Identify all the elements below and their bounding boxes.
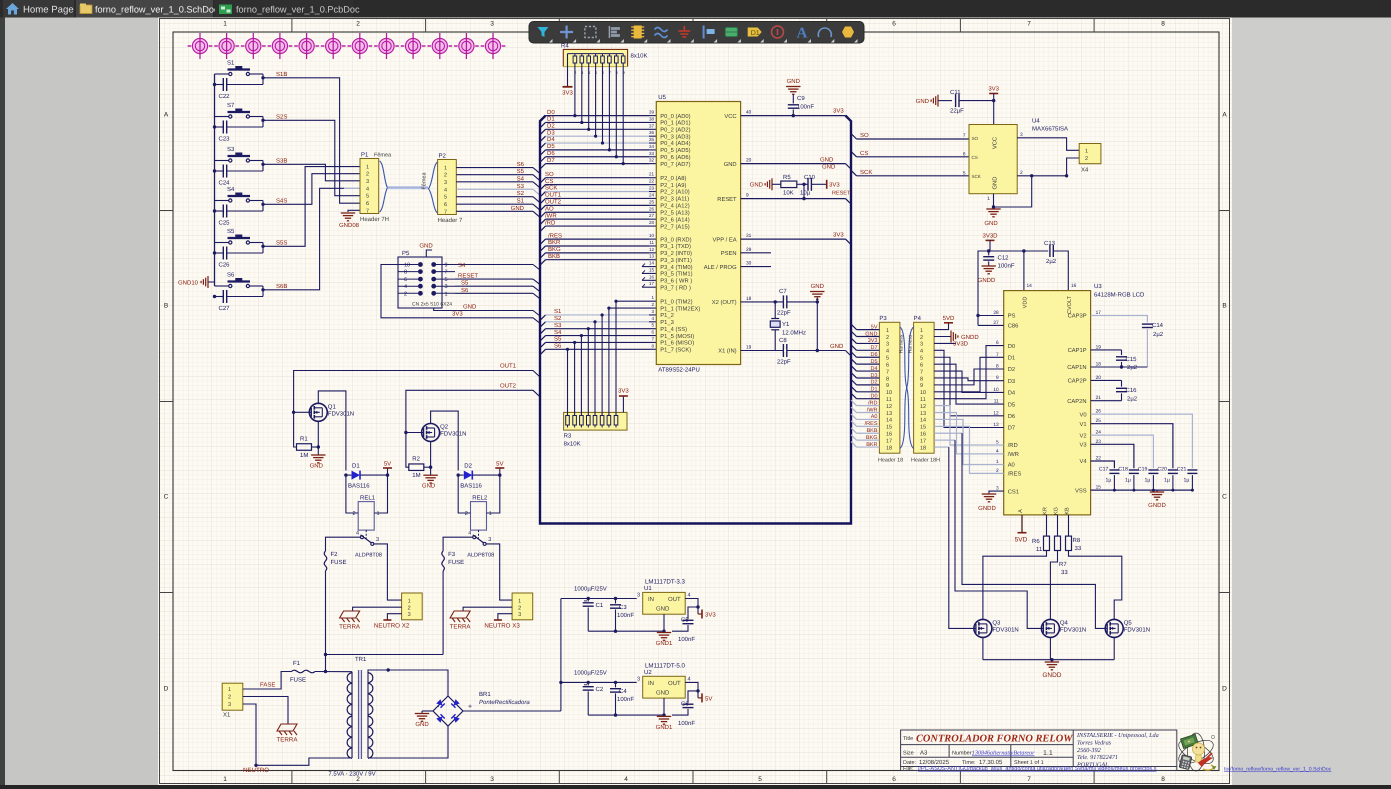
capacitor C15 2u2 (1091, 349, 1122, 351)
svg-text:C2: C2 (596, 686, 604, 693)
capacitor C12 100nF (988, 251, 990, 255)
svg-text:D1: D1 (547, 116, 555, 123)
wire U1 GND pin (663, 614, 665, 631)
capacitor C18 1u (1129, 469, 1139, 471)
svg-text:26: 26 (649, 206, 655, 211)
svg-text:P1_3: P1_3 (660, 319, 674, 326)
wire P4 D5 to LCD (934, 364, 1004, 404)
svg-text:13: 13 (886, 411, 892, 417)
wire S3B to P1 pin3 (263, 164, 360, 181)
pin stub PSEN (741, 252, 771, 254)
svg-text:6: 6 (366, 201, 369, 207)
svg-text:U4: U4 (1032, 118, 1040, 125)
svg-text:C18: C18 (1118, 467, 1128, 473)
fiducial mark FID8 (374, 33, 399, 59)
fuse F1 (292, 670, 316, 673)
svg-text:1: 1 (518, 598, 521, 604)
svg-text:S1B: S1B (276, 71, 287, 78)
svg-text:8x10K: 8x10K (631, 53, 648, 60)
svg-text:BKG: BKG (866, 435, 878, 441)
wire mains rail riser (325, 655, 327, 672)
wire RESET pin 9 (741, 198, 846, 200)
wire BR1 minus to GND (422, 710, 433, 712)
wire net SCK to MAX6675 (851, 170, 857, 176)
wire net OUT1 (540, 198, 546, 204)
svg-text:R8: R8 (1073, 537, 1081, 544)
svg-text:11: 11 (649, 240, 654, 245)
svg-text:1M: 1M (300, 452, 308, 459)
transistor Q1 FDV301N (309, 403, 327, 421)
wire R4 output 7 to D6 (615, 63, 617, 157)
svg-text:P0_5 (AD5): P0_5 (AD5) (660, 147, 690, 154)
svg-text:File:: File: (903, 766, 914, 772)
svg-text:+: + (468, 704, 472, 711)
svg-text:ALE / PROG: ALE / PROG (704, 264, 737, 271)
svg-text:D5: D5 (1008, 402, 1015, 408)
svg-text:17.30.05: 17.30.05 (979, 759, 1003, 766)
svg-text:P2_7 (A15): P2_7 (A15) (660, 223, 689, 230)
svg-text:Harness: Harness (908, 334, 914, 353)
capacitor C26 (227, 252, 263, 254)
svg-text:10: 10 (404, 263, 410, 269)
svg-text:/RES: /RES (548, 232, 562, 239)
svg-text:D2: D2 (464, 463, 472, 470)
capacitor C1 1000uF (587, 599, 589, 602)
svg-text:C20: C20 (1157, 467, 1167, 473)
wire F3 to mains rail (442, 571, 444, 655)
wire CAP2N (1091, 400, 1122, 402)
svg-text:7: 7 (445, 270, 448, 276)
svg-text:OUT2: OUT2 (545, 199, 562, 206)
wire net 3V3 to P3 (851, 338, 857, 344)
svg-text:SCK: SCK (972, 174, 981, 179)
svg-text:2µ2: 2µ2 (1046, 258, 1057, 265)
connector X3 (512, 593, 533, 620)
svg-text:AO: AO (545, 205, 554, 212)
wire P4 D6 to LCD (934, 357, 1004, 416)
svg-text:SO: SO (545, 171, 554, 178)
wire net D6 (540, 157, 546, 163)
svg-text:V0: V0 (1080, 411, 1087, 418)
svg-text:NEUTRO: NEUTRO (243, 767, 269, 774)
resistor R1 1M (294, 412, 297, 447)
wire P4 D1 to LCD (934, 357, 1004, 391)
svg-text:Title: Title (903, 736, 913, 742)
net NEUTRO wire (243, 704, 352, 765)
svg-text:CONTROLADOR FORNO RELOW: CONTROLADOR FORNO RELOW (916, 734, 1073, 745)
svg-text:37: 37 (649, 123, 655, 128)
svg-text:5V: 5V (496, 461, 503, 468)
svg-text:Header 18: Header 18 (878, 458, 903, 464)
svg-text:TERRA: TERRA (450, 624, 472, 631)
svg-text:7: 7 (1027, 776, 1031, 783)
svg-text:2: 2 (408, 605, 411, 611)
svg-text:2560-392: 2560-392 (1077, 747, 1101, 754)
svg-text:C: C (164, 494, 169, 501)
bus boundary wire loop (540, 116, 851, 524)
svg-text:P1: P1 (361, 152, 369, 159)
svg-text:S7: S7 (227, 102, 235, 109)
svg-text:P0_2 (AD2): P0_2 (AD2) (660, 127, 690, 134)
svg-text:C6: C6 (681, 700, 689, 707)
wire P4 D2 to LCD (934, 369, 1004, 385)
svg-text:10µ: 10µ (800, 190, 811, 197)
capacitor C11 22uF (937, 95, 939, 107)
svg-text:7: 7 (963, 132, 966, 138)
wire R KR to Q3 drain (983, 551, 1047, 620)
svg-text:FASE: FASE (260, 682, 275, 689)
capacitor C3 100nF (615, 599, 617, 604)
svg-text:12: 12 (649, 247, 655, 252)
wire PS pin (978, 315, 1004, 317)
svg-text:40: 40 (746, 110, 752, 116)
svg-text:GND: GND (463, 303, 477, 310)
ground GNDD at transistors (1051, 660, 1053, 662)
wire P4 D3 to LCD (934, 378, 1004, 381)
svg-text:18: 18 (886, 445, 892, 451)
wire P1_1 from R3 (609, 307, 656, 309)
svg-text:D1: D1 (352, 463, 360, 470)
svg-text:3: 3 (637, 676, 640, 682)
home page tab (3, 0, 74, 18)
svg-text:Header 7H: Header 7H (360, 216, 389, 223)
svg-text:P3_2 (INT0): P3_2 (INT0) (660, 250, 692, 257)
fiducial mark FID1 (188, 33, 213, 59)
pin stub P3_4 (642, 266, 656, 268)
svg-text:10: 10 (920, 390, 926, 396)
svg-text:9: 9 (746, 193, 749, 199)
svg-text:5: 5 (963, 170, 966, 176)
wire V3 to C18 (1091, 444, 1134, 468)
svg-text:8: 8 (404, 270, 407, 276)
ground GND at Q1 (311, 454, 325, 456)
capacitor C7 22pF (782, 295, 784, 308)
svg-text:forno_reflow_ver_1_0.SchDoc: forno_reflow_ver_1_0.SchDoc (95, 5, 219, 15)
wire sources to GNDD (982, 637, 984, 659)
svg-text:8: 8 (886, 376, 889, 382)
svg-text:C9: C9 (797, 95, 805, 102)
svg-text:P0_3 (AD3): P0_3 (AD3) (660, 133, 690, 140)
thermocouple interface U4 MAX6675ISA (969, 125, 1017, 194)
svg-text:C15: C15 (1126, 356, 1138, 363)
schematic sheet paper (158, 18, 1232, 786)
svg-text:/WR: /WR (1008, 451, 1019, 458)
wire Q2 drain to relay (431, 411, 459, 470)
svg-text:17: 17 (649, 281, 655, 286)
svg-text:S3: S3 (517, 183, 525, 190)
svg-text:4: 4 (404, 284, 407, 290)
svg-text:P3: P3 (879, 315, 887, 322)
svg-text:33: 33 (649, 151, 655, 156)
svg-text:P1_2: P1_2 (660, 312, 674, 319)
svg-text:P2_4 (A12): P2_4 (A12) (660, 203, 689, 210)
svg-text:KB: KB (1065, 507, 1071, 515)
svg-text:R5: R5 (783, 174, 791, 181)
svg-text:13: 13 (649, 254, 655, 259)
svg-text:5: 5 (366, 194, 369, 200)
wire net D4 (540, 143, 546, 149)
resistor network R3 8x10K (564, 412, 627, 430)
wire regulator U1 input rail (561, 598, 637, 600)
svg-text:CS: CS (972, 155, 978, 160)
relay REL1 contact (365, 530, 367, 540)
svg-text:2: 2 (228, 695, 231, 701)
svg-text:3: 3 (518, 612, 521, 618)
svg-text:R6: R6 (1032, 538, 1040, 545)
wire net AO (540, 212, 546, 218)
svg-text:FDV301N: FDV301N (440, 431, 466, 438)
wire net S2 (540, 322, 546, 328)
wire R3 pin 3 (580, 336, 582, 416)
svg-text:A0: A0 (871, 414, 878, 420)
svg-text:P2_1 (A9): P2_1 (A9) (660, 182, 686, 189)
svg-text:1.1: 1.1 (1043, 750, 1053, 757)
svg-text:5VD: 5VD (943, 315, 955, 322)
svg-text:D6: D6 (1008, 413, 1015, 420)
svg-text:12.0MHz: 12.0MHz (782, 330, 806, 337)
svg-text:S3: S3 (554, 322, 562, 329)
svg-text:1: 1 (445, 291, 448, 297)
svg-text:16: 16 (1071, 283, 1077, 289)
wire X2 pin 18 (741, 301, 818, 303)
svg-text:1: 1 (987, 196, 990, 202)
svg-text:7: 7 (444, 209, 447, 215)
svg-text:100nF: 100nF (617, 612, 634, 619)
wire net D3 (540, 136, 546, 142)
wire net D7 to P3 (851, 345, 857, 351)
svg-text:IN: IN (648, 680, 654, 687)
svg-text:12/08/2025: 12/08/2025 (919, 759, 950, 766)
capacitor C8 22pF (782, 344, 784, 357)
svg-text:GND: GND (656, 606, 670, 613)
svg-text:F1: F1 (293, 660, 301, 667)
svg-text:GND: GND (415, 721, 429, 728)
wire net S1 (540, 315, 546, 321)
wire regulator U2 input rail (561, 681, 637, 683)
wire REL2 pin4 to fuse F3 (443, 537, 473, 551)
svg-text:/RD: /RD (868, 400, 878, 406)
capacitor C24 (227, 170, 263, 172)
wire net /RD (540, 226, 546, 232)
svg-text:P5: P5 (402, 250, 410, 257)
wire X3 pin2 to TERRA (463, 607, 512, 611)
wire VSS rail (1091, 489, 1193, 491)
svg-text:22pF: 22pF (777, 359, 791, 366)
svg-text:2: 2 (444, 173, 447, 179)
wire reset junction (803, 184, 805, 198)
svg-text:GND: GND (984, 220, 998, 227)
svg-text:D7: D7 (1008, 426, 1015, 432)
svg-text:GND: GND (822, 163, 836, 170)
svg-text:S4: S4 (458, 262, 466, 269)
svg-text:GND: GND (811, 283, 825, 290)
svg-text:3: 3 (886, 342, 889, 348)
svg-text:C1: C1 (596, 602, 604, 609)
connector P5 (398, 257, 442, 308)
svg-text:100nF: 100nF (617, 696, 634, 703)
svg-text:7: 7 (920, 369, 923, 375)
svg-text:12: 12 (920, 404, 926, 410)
svg-text:GND: GND (830, 343, 844, 350)
wire net /WR to P3 (851, 407, 857, 413)
svg-text:BAS116: BAS116 (348, 483, 370, 490)
wire net BKR (540, 246, 546, 252)
svg-text:GND: GND (916, 98, 930, 105)
svg-text:D2: D2 (547, 123, 555, 130)
svg-text:P2_2 (A10): P2_2 (A10) (660, 189, 689, 196)
toolbar no-erc icon (772, 26, 784, 38)
svg-text:CAP2N: CAP2N (1067, 398, 1086, 405)
svg-text:TERRA: TERRA (277, 737, 299, 744)
wire S5 from P5 to bus (455, 285, 533, 287)
svg-text:C5: C5 (681, 617, 689, 624)
svg-text:R2: R2 (412, 456, 420, 463)
svg-text:1µ: 1µ (1184, 478, 1190, 484)
power 3V3 at R3 (619, 395, 628, 397)
svg-text:Tele. 917822471: Tele. 917822471 (1077, 754, 1118, 761)
wire net SO (540, 178, 546, 184)
svg-text:KG: KG (1054, 507, 1060, 515)
wire net /RES to P3 (851, 421, 857, 427)
svg-text:A: A (1222, 112, 1227, 119)
svg-text:VDD: VDD (1023, 297, 1029, 309)
svg-text:1: 1 (886, 328, 889, 334)
svg-text:GNDD: GNDD (961, 334, 979, 341)
svg-text:1: 1 (489, 511, 492, 517)
ground GNDD below C12 (982, 265, 996, 267)
svg-text:14: 14 (920, 418, 926, 424)
svg-text:D1: D1 (870, 387, 877, 393)
svg-text:9: 9 (920, 383, 923, 389)
svg-text:Harness: Harness (899, 334, 905, 353)
wire R KG to Q4 drain (1050, 551, 1057, 620)
fiducial mark FID6 (321, 33, 346, 59)
status bar (0, 785, 1391, 789)
power 3V3D rail (986, 239, 995, 241)
svg-text:4: 4 (886, 349, 889, 355)
wire secondary top to bridge (368, 670, 448, 697)
wire R8 to Q5 drain (1069, 551, 1122, 620)
svg-text:C24: C24 (219, 180, 231, 187)
svg-text:5V: 5V (384, 461, 391, 468)
earth TERRA at X1 (277, 724, 297, 731)
svg-text:AT89S52-24PU: AT89S52-24PU (658, 367, 700, 374)
svg-text:GND: GND (656, 689, 670, 696)
power 3V3 at U4 (989, 93, 998, 95)
svg-text:FDV301N: FDV301N (1124, 626, 1150, 633)
wire BKR to Q3 gate (934, 446, 949, 448)
fiducial mark FID2 (214, 33, 239, 59)
wire X2 pin2 to TERRA (353, 607, 402, 611)
wire S4 terminals (215, 200, 229, 202)
svg-text:5: 5 (886, 356, 889, 362)
wire P4 D4 to LCD (934, 371, 1004, 392)
svg-text:SCK: SCK (545, 185, 557, 192)
capacitor C17 1u (1109, 469, 1119, 471)
svg-text:35: 35 (649, 137, 655, 142)
svg-text:3: 3 (637, 593, 640, 599)
svg-text:100nF: 100nF (678, 720, 695, 727)
sheet inner frame (173, 32, 1219, 771)
wire X1 pin2 to TERRA (243, 697, 288, 725)
svg-text:14: 14 (649, 261, 655, 266)
svg-text:6: 6 (886, 362, 889, 368)
wire net /RES (540, 239, 546, 245)
svg-text:SO: SO (972, 136, 979, 141)
wire net D4 to P3 (851, 366, 857, 372)
svg-text:F3: F3 (448, 551, 456, 558)
svg-text:9: 9 (445, 263, 448, 269)
wire VPP/EA to 3V3 (741, 238, 846, 240)
svg-text:P0_7 (AD7): P0_7 (AD7) (660, 161, 690, 168)
svg-text:GND: GND (511, 205, 525, 212)
svg-text:C: C (1222, 494, 1227, 501)
svg-text:32: 32 (649, 158, 655, 163)
svg-text:2: 2 (366, 172, 369, 178)
svg-text:11: 11 (1036, 546, 1043, 553)
wire P1_0 from R3 (616, 300, 656, 302)
svg-text:D3: D3 (1008, 378, 1015, 385)
wire P1 pin7 to GND08 (348, 210, 360, 212)
toolbar probe icon (703, 26, 705, 39)
svg-text:S4: S4 (227, 186, 235, 193)
wire P4 /RES to LCD (934, 426, 1004, 473)
wire KR to R resistor (1046, 515, 1048, 536)
svg-text:RESET: RESET (717, 196, 737, 203)
svg-text:C21: C21 (1177, 467, 1187, 473)
svg-text:D0: D0 (1008, 343, 1015, 350)
svg-text:D1: D1 (1008, 356, 1015, 362)
wire net S4 (540, 336, 546, 342)
fuse F3 (442, 551, 445, 571)
svg-text:REL2: REL2 (472, 495, 488, 502)
svg-text:3: 3 (488, 537, 491, 543)
svg-text:11: 11 (920, 397, 926, 403)
svg-text:CS: CS (860, 150, 868, 157)
wire V4 to C17 (1091, 461, 1115, 468)
svg-text:D0: D0 (547, 109, 555, 116)
diode D2 BAS116 (458, 474, 464, 476)
svg-text:5: 5 (445, 277, 448, 283)
wire KB to R resistor (1068, 515, 1070, 536)
wire net S3 (540, 329, 546, 335)
svg-text:25: 25 (649, 199, 655, 204)
wire R3 pin 6 (601, 315, 603, 416)
wire C2 ground rail (588, 714, 664, 716)
power 5V at D1 (387, 468, 389, 475)
resistor R KG (1055, 536, 1061, 550)
svg-text:Q3: Q3 (992, 619, 1001, 626)
svg-text:C3: C3 (619, 604, 627, 611)
svg-text:7: 7 (366, 208, 369, 214)
svg-text:5: 5 (444, 195, 447, 201)
toolbar arc icon (818, 28, 831, 37)
svg-text:18: 18 (746, 296, 752, 302)
wire KG to R resistor (1057, 515, 1059, 536)
svg-text:7: 7 (886, 369, 889, 375)
wire net A0 to P3 (851, 414, 857, 420)
relay REL2 coil (471, 502, 487, 530)
floating toolbar (529, 22, 864, 44)
svg-text:S6: S6 (461, 287, 469, 294)
svg-text:D4: D4 (870, 366, 877, 372)
svg-text:GND1: GND1 (656, 724, 673, 731)
svg-text:22: 22 (649, 179, 655, 184)
svg-text:1M: 1M (412, 472, 420, 479)
svg-text:15: 15 (920, 425, 926, 431)
fiducial mark FID4 (267, 33, 292, 59)
svg-text:B: B (1222, 303, 1226, 310)
